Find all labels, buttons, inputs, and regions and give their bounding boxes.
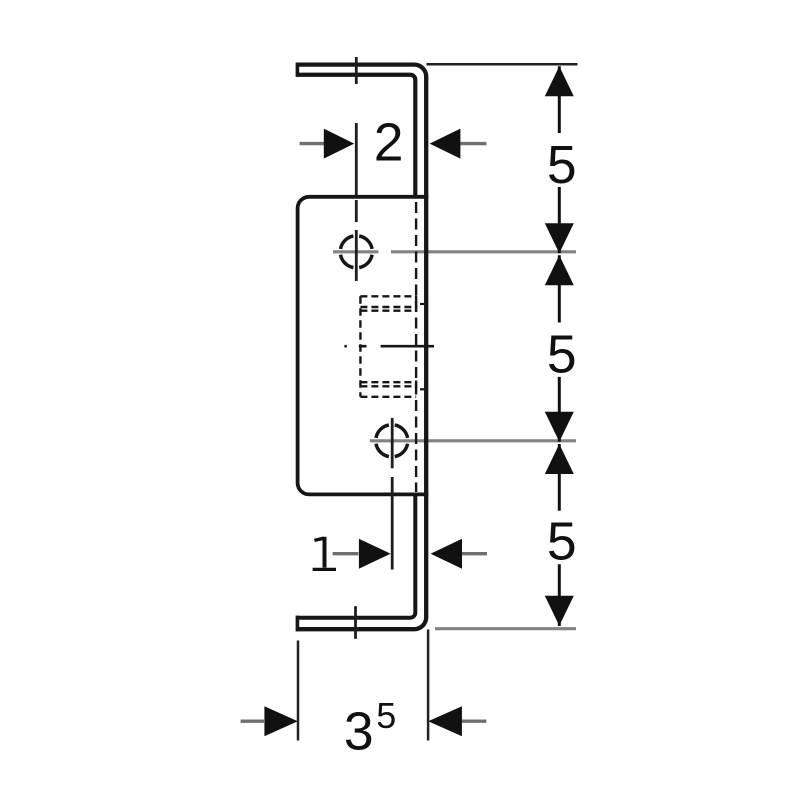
lower hole vertical centerline — [391, 418, 394, 570]
hidden feature lower pair line 2 — [360, 385, 416, 387]
top flange left end cap — [296, 63, 300, 77]
hidden feature right end connector upper — [415, 296, 417, 311]
extension line from upper hole to dimension line — [391, 250, 576, 253]
hidden feature upper pair line 2 — [360, 310, 416, 312]
dim 35 right tail — [462, 720, 486, 723]
dim arrow down, segment 3 bottom — [545, 596, 574, 626]
extension line from bottom edge — [435, 627, 576, 630]
hidden feature top edge (dashed) — [360, 295, 416, 297]
dim 1 right tail — [462, 552, 487, 555]
svg-text:5: 5 — [547, 326, 577, 385]
bottom flange inner surface — [297, 494, 415, 617]
dim 2 left tail — [300, 142, 325, 145]
dim 35 left arrow — [264, 706, 297, 736]
dim arrow up, segment 2 top — [545, 255, 574, 285]
dim 1 left tail — [333, 552, 359, 555]
hidden feature right end connector lower — [415, 381, 417, 388]
bracket outer contour: top flange outer surface, right face, bottom flange outer surface — [297, 65, 426, 630]
dim 1 left arrow — [359, 539, 391, 569]
hidden feature bottom edge (dashed) — [360, 396, 416, 398]
dim 2 right arrow — [430, 129, 461, 159]
dim 2 right tail — [460, 142, 486, 145]
hidden feature tab tick upper — [420, 303, 428, 305]
hidden feature tab tick lower — [420, 388, 425, 390]
upper hole vertical centerline — [355, 57, 358, 281]
dim arrow down, segment 2 bottom — [545, 412, 574, 442]
dim 1 right arrow — [431, 539, 462, 569]
svg-text:5: 5 — [547, 136, 577, 195]
dim 35 right arrow — [428, 706, 462, 736]
upper hole horizontal crosshair — [333, 250, 378, 253]
dim arrow up, segment 3 top — [545, 444, 574, 474]
dim 35 left extension line — [297, 641, 300, 741]
front plate outline — [298, 197, 429, 495]
dim 35 right extension line — [427, 630, 430, 741]
hidden feature upper pair line 1 — [360, 306, 416, 308]
dim 2 left arrow — [324, 129, 354, 159]
lower hole circle — [376, 425, 408, 457]
right dimension line segments — [558, 66, 561, 626]
top flange inner surface — [297, 75, 415, 197]
dimension text 1, drawn with foot serif — [314, 538, 323, 540]
extension line from top edge — [427, 63, 578, 66]
bottom flange centerline tick — [354, 606, 357, 639]
svg-text:3: 3 — [344, 702, 374, 761]
dim arrow down, segment 1 bottom — [545, 223, 574, 253]
dim arrow up, segment 1 top — [545, 66, 574, 96]
dim 35 left tail — [241, 720, 264, 723]
hidden feature left edge (dashed) — [359, 296, 361, 397]
svg-text:5: 5 — [547, 513, 577, 572]
svg-text:2: 2 — [374, 113, 404, 172]
svg-text:5: 5 — [376, 695, 396, 736]
hidden feature horizontal centerline — [344, 345, 434, 348]
hidden feature lower pair line 1 — [360, 381, 416, 383]
lower hole horizontal crosshair and extension line — [370, 439, 576, 442]
bottom flange left end cap — [296, 616, 300, 632]
upper hole circle — [341, 236, 373, 268]
hidden inner face line (dashed) — [415, 202, 417, 492]
